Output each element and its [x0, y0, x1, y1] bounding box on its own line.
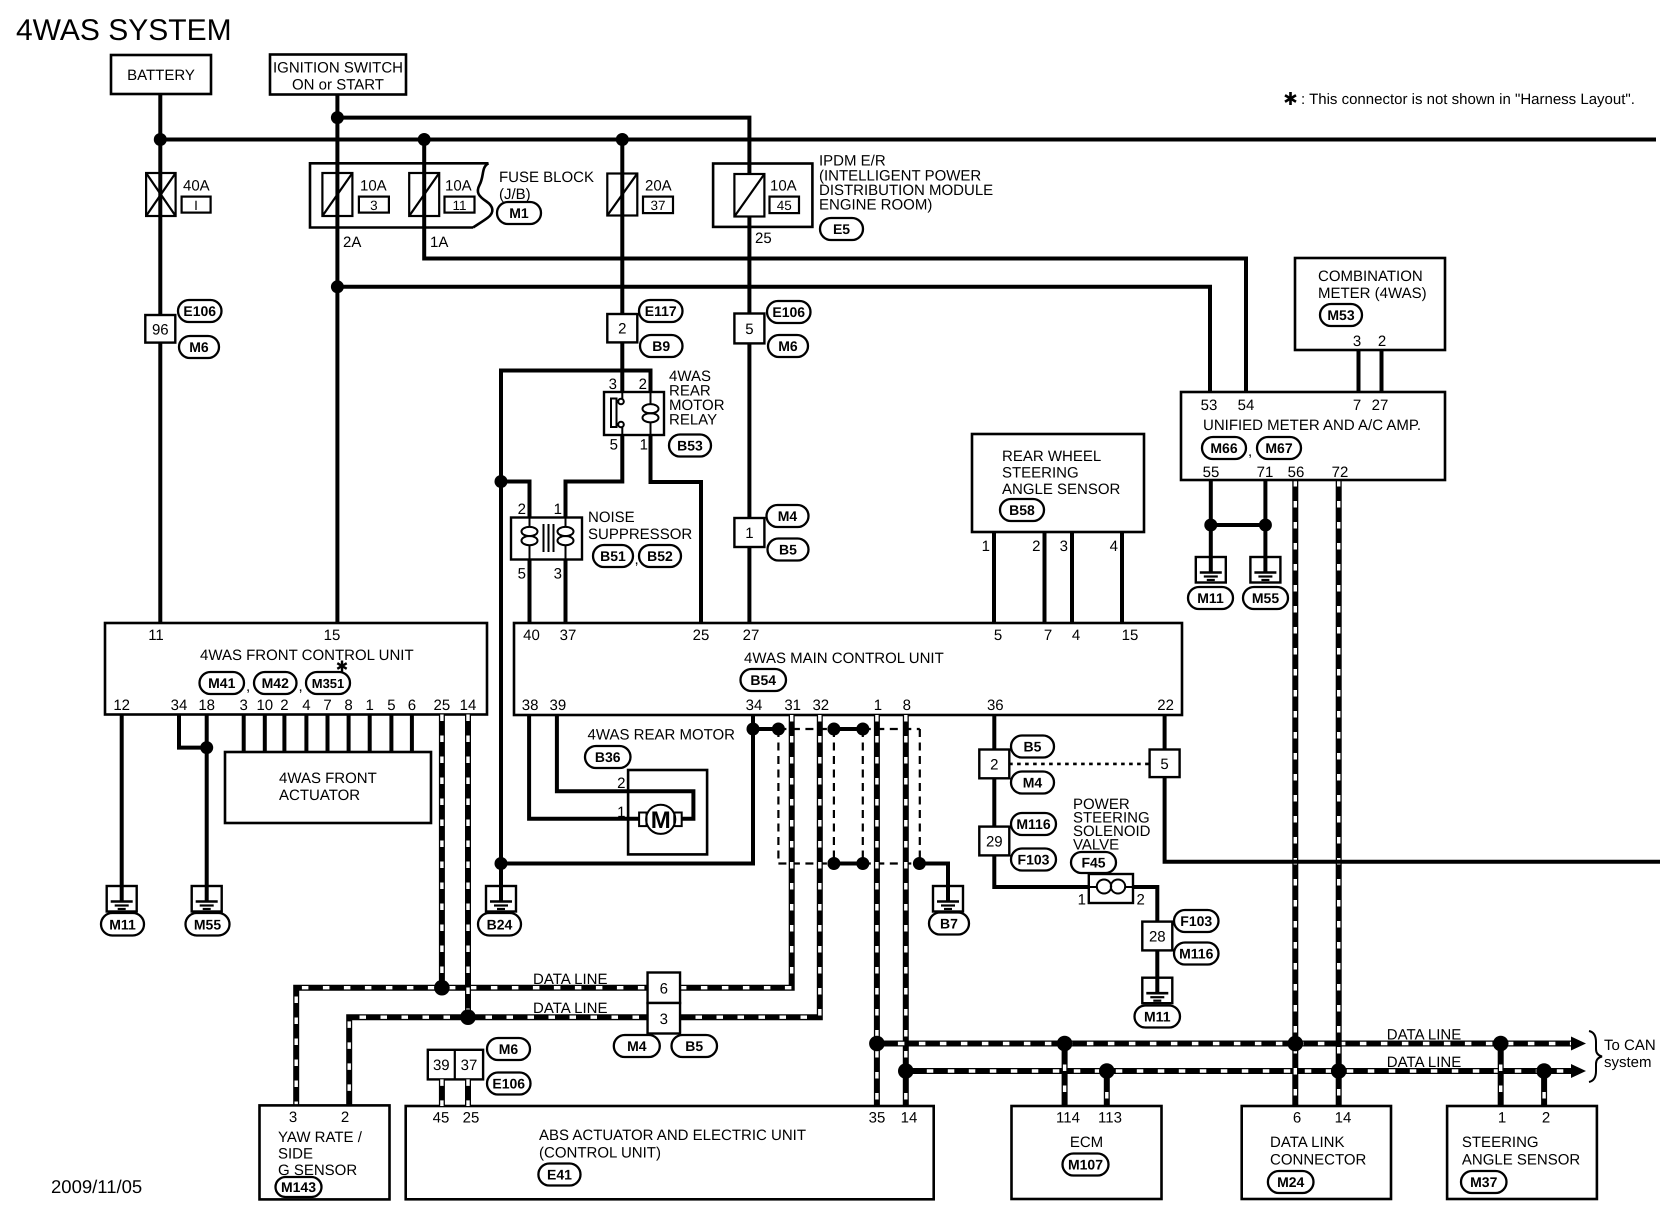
svg-text:3: 3: [609, 376, 617, 393]
svg-text:4WAS REAR MOTOR: 4WAS REAR MOTOR: [588, 727, 736, 744]
dotted link connector2 to connector5: [1009, 763, 1149, 766]
svg-text:M11: M11: [109, 916, 136, 932]
connector B54: [741, 669, 787, 691]
svg-text:B51: B51: [600, 548, 626, 564]
relay B53 box: [604, 392, 664, 435]
svg-text:12: 12: [113, 697, 130, 714]
svg-text:2: 2: [990, 756, 998, 773]
fusible link I 40A: [146, 173, 176, 216]
power steering solenoid valve box: [1089, 874, 1133, 903]
connector M6: [768, 335, 808, 357]
svg-text:37: 37: [650, 198, 665, 213]
svg-text:5: 5: [1160, 756, 1168, 773]
svg-text:6: 6: [408, 697, 416, 714]
svg-text:32: 32: [812, 697, 829, 714]
connector M41: [200, 672, 245, 694]
junction ECM114 / CAN high: [1057, 1036, 1073, 1052]
striped wire main pin31 data line to yaw pin3: [296, 715, 792, 1105]
svg-text:B53: B53: [677, 438, 703, 454]
dashed shield link D right: [863, 728, 920, 730]
wire front pin18 to ground M55: [205, 715, 209, 902]
svg-text:M116: M116: [1016, 816, 1050, 832]
svg-text:5: 5: [387, 697, 395, 714]
value box 37: [643, 197, 673, 214]
connector 2 (B5/M4): [979, 750, 1009, 779]
wire ignition feed vertical: [335, 94, 339, 623]
svg-text:3: 3: [660, 1011, 668, 1028]
svg-text:1A: 1A: [430, 234, 448, 251]
unified top pin labels: [1201, 397, 1389, 414]
connector B51: [593, 545, 633, 567]
wire front unit to actuator: [242, 715, 246, 753]
SAS pin labels: [1498, 1110, 1550, 1127]
svg-text:4: 4: [302, 697, 310, 714]
junction front pin25 / data line: [434, 980, 450, 996]
svg-text:M4: M4: [627, 1038, 647, 1054]
svg-text:F103: F103: [1018, 852, 1050, 868]
text REAR WHEEL STEERING ANGLE SENSOR: [1002, 448, 1121, 498]
ground connector B24: [478, 913, 521, 936]
svg-text:37: 37: [461, 1057, 478, 1074]
svg-text:B7: B7: [940, 916, 958, 932]
svg-text:1: 1: [982, 538, 990, 555]
svg-text:45: 45: [777, 198, 792, 213]
comb pin labels: [1353, 333, 1386, 350]
ignition switch: [270, 55, 406, 95]
svg-text:B5: B5: [1024, 739, 1042, 755]
svg-text:15: 15: [1122, 627, 1139, 644]
connector B5: [768, 539, 809, 561]
svg-text:2: 2: [639, 376, 647, 393]
wire main pin39 to motor pin2: [557, 715, 694, 819]
connector M42: [254, 672, 297, 694]
connector E5: [820, 218, 863, 240]
connector B52: [639, 545, 681, 567]
svg-text:DATA LINE: DATA LINE: [533, 1000, 607, 1017]
svg-text:ON or START: ON or START: [292, 77, 384, 94]
wire front unit to actuator: [282, 715, 286, 753]
svg-text:M42: M42: [262, 675, 289, 691]
front unit bottom pin labels: [113, 697, 476, 714]
junction ground 55: [1204, 519, 1217, 532]
svg-text:F103: F103: [1180, 913, 1212, 929]
svg-text:40A: 40A: [183, 178, 210, 195]
svg-text:6: 6: [660, 980, 668, 997]
svg-text:25: 25: [463, 1110, 480, 1127]
dashed shield link C down: [833, 729, 835, 864]
text COMBINATION METER (4WAS): [1318, 268, 1427, 302]
svg-text:M6: M6: [189, 339, 209, 355]
striped wire to SAS pin1: [1498, 1044, 1504, 1107]
connector M4: [767, 505, 809, 527]
connector B5: [1011, 736, 1054, 758]
connector 96 (E106/M6): [145, 315, 175, 343]
svg-text:E106: E106: [183, 303, 216, 319]
svg-text:F45: F45: [1081, 855, 1105, 871]
dashed shield link B-C: [778, 728, 834, 730]
svg-text:DATA LINK: DATA LINK: [1270, 1134, 1344, 1151]
4WAS front actuator box: [225, 752, 431, 823]
jumper grounds: [1211, 523, 1266, 527]
jumper pin34 to pin31 shield: [753, 727, 778, 731]
ground M11: [1142, 978, 1172, 1004]
wire sensor pin4 to main pin15: [1120, 532, 1124, 623]
svg-text:39: 39: [433, 1057, 450, 1074]
striped wire unified pin72 to DLC pin14: [1336, 480, 1342, 1106]
svg-text:53: 53: [1201, 397, 1218, 414]
svg-text:B9: B9: [652, 338, 670, 354]
wire main pin22 chain: [1165, 715, 1660, 862]
fuse block J/B outline with brace: [310, 163, 492, 227]
svg-text:E106: E106: [492, 1076, 525, 1092]
svg-text:35: 35: [869, 1110, 886, 1127]
svg-text:3: 3: [554, 566, 562, 583]
junction pin34 shield: [747, 723, 760, 736]
svg-text:2: 2: [518, 501, 526, 518]
svg-text:DATA LINE: DATA LINE: [1387, 1027, 1461, 1044]
connector M107: [1063, 1154, 1109, 1176]
striped wire to SAS pin2: [1541, 1071, 1547, 1106]
wire fuse11 output to unified meter pin 54: [424, 140, 1246, 393]
svg-text:3: 3: [240, 697, 248, 714]
svg-text:,: ,: [635, 551, 639, 568]
wire front pin12 to ground M11: [120, 715, 124, 902]
wire sensor pin2 to main pin7: [1043, 532, 1047, 623]
svg-text:2A: 2A: [343, 234, 361, 251]
junction shield F: [856, 857, 869, 870]
svg-text:3: 3: [1353, 333, 1361, 350]
junction DLC14 / CAN low: [1331, 1063, 1347, 1079]
svg-text:25: 25: [755, 230, 772, 247]
connector M67: [1257, 437, 1301, 459]
wire main pin38 to motor pin1: [529, 715, 639, 819]
svg-text:40: 40: [523, 627, 540, 644]
brace To CAN: [1589, 1031, 1602, 1082]
connector M66: [1202, 437, 1246, 459]
connector E41: [538, 1164, 580, 1186]
svg-text:54: 54: [1238, 397, 1255, 414]
svg-text:M11: M11: [1144, 1009, 1171, 1025]
svg-text:31: 31: [784, 697, 801, 714]
svg-text:2: 2: [617, 775, 625, 792]
arrow CAN bus high: [1571, 1037, 1586, 1051]
connector M4: [614, 1035, 660, 1057]
wire fuse37 feed vertical: [620, 140, 624, 393]
svg-text:REAR WHEEL: REAR WHEEL: [1002, 448, 1101, 465]
svg-text:10A: 10A: [770, 178, 797, 195]
text To CAN system: [1604, 1037, 1656, 1071]
ground B24: [486, 886, 516, 912]
data link connector box: [1242, 1106, 1391, 1199]
svg-text:11: 11: [148, 627, 164, 644]
svg-text:96: 96: [152, 321, 169, 338]
main unit top pin labels: [523, 627, 1138, 644]
svg-text:E41: E41: [547, 1167, 572, 1183]
svg-text:28: 28: [1149, 929, 1166, 946]
dashed shield link bottom left: [778, 862, 834, 864]
svg-text:2: 2: [1137, 892, 1145, 909]
combination meter box: [1295, 258, 1445, 350]
connector 1 (M4/B5): [734, 518, 764, 547]
svg-text:M351: M351: [312, 676, 345, 691]
svg-text:ANGLE SENSOR: ANGLE SENSOR: [1002, 481, 1121, 498]
wire relay pin1 to main unit pin25: [651, 435, 702, 623]
noise suppressor pin labels: [518, 501, 562, 583]
svg-text:M6: M6: [499, 1041, 519, 1057]
svg-text:10: 10: [256, 697, 273, 714]
svg-text:B24: B24: [487, 916, 513, 932]
svg-text:M55: M55: [194, 916, 221, 932]
ground B7: [933, 886, 963, 912]
connector F103: [1011, 849, 1056, 871]
svg-text:,: ,: [1248, 443, 1252, 460]
junction shield G: [913, 857, 926, 870]
svg-text:71: 71: [1257, 464, 1274, 481]
svg-text:36: 36: [987, 697, 1004, 714]
wire fuse3 branch to unified meter pin 53: [337, 287, 1210, 392]
ground M55: [192, 886, 222, 912]
svg-text:4: 4: [1110, 538, 1118, 555]
junction pins 34-18: [200, 741, 213, 754]
svg-text:38: 38: [522, 697, 539, 714]
ground M11: [1196, 557, 1226, 583]
svg-text:113: 113: [1098, 1110, 1122, 1127]
ground connector M11: [1135, 1006, 1181, 1028]
wire relay pin5 to noise suppressor pin1: [566, 435, 623, 518]
wire front unit to actuator: [347, 715, 351, 753]
wire shield to B7 ground: [919, 864, 948, 902]
solenoid pin labels: [1078, 892, 1145, 909]
svg-text:,: ,: [299, 678, 303, 695]
svg-text:B5: B5: [685, 1038, 703, 1054]
svg-text:YAW RATE /: YAW RATE /: [278, 1129, 363, 1146]
connector 5 (E106/M6): [734, 314, 764, 344]
junction front pin14 / data line: [460, 1009, 476, 1025]
junction shield D: [856, 723, 869, 736]
fuse 37 20A: [607, 174, 637, 216]
svg-text:39: 39: [550, 697, 567, 714]
svg-text:E117: E117: [645, 303, 677, 319]
connector 28 (F103/M116): [1142, 922, 1172, 951]
svg-text:CONNECTOR: CONNECTOR: [1270, 1152, 1367, 1169]
striped stub 39 to ABS 45: [439, 1079, 445, 1106]
junction fuse 3 output: [331, 280, 344, 293]
4WAS front control unit box: [105, 623, 487, 715]
junction shield E: [827, 857, 840, 870]
svg-text:M4: M4: [778, 508, 798, 524]
connector M4: [1011, 772, 1054, 794]
wire solenoid pin2 to connector 28: [1133, 887, 1157, 993]
junction pin1 / CAN high: [869, 1036, 885, 1052]
jumper shield dots E-F: [834, 862, 863, 866]
asterisk: [337, 661, 346, 672]
junction SAS2 / CAN low: [1536, 1063, 1552, 1079]
svg-text:M6: M6: [778, 338, 798, 354]
connector M6: [179, 336, 219, 358]
svg-text:FUSE BLOCK: FUSE BLOCK: [499, 169, 594, 186]
striped wire unified pin56 to DLC pin6: [1292, 480, 1298, 1106]
svg-text:(CONTROL UNIT): (CONTROL UNIT): [539, 1145, 661, 1162]
svg-text:1: 1: [745, 525, 753, 542]
junction fuse 37 feed: [616, 133, 629, 146]
svg-text:IGNITION SWITCH: IGNITION SWITCH: [273, 60, 403, 77]
striped wire front pin14 to data line: [465, 715, 471, 1018]
unified meter box: [1181, 392, 1445, 480]
wire front unit to actuator: [368, 715, 372, 753]
dashed shield link right down: [919, 729, 921, 864]
svg-text:2: 2: [1542, 1110, 1550, 1127]
connector 39/37 (M6/E106): [428, 1050, 483, 1080]
svg-text:2: 2: [1378, 333, 1386, 350]
front unit top pin labels: [148, 627, 340, 644]
svg-text:UNIFIED METER AND A/C AMP.: UNIFIED METER AND A/C AMP.: [1203, 417, 1421, 434]
svg-text:1: 1: [617, 804, 625, 821]
unified bottom pin labels: [1203, 464, 1349, 481]
text 4WAS FRONT ACTUATOR: [279, 770, 377, 804]
value box 3: [359, 197, 389, 213]
svg-text:1: 1: [874, 697, 882, 714]
wire noise suppressor pin3 to main pin37: [564, 560, 568, 624]
wire main pin36 chain: [994, 715, 1089, 887]
connector E106: [767, 301, 811, 323]
motor pin labels: [617, 775, 625, 821]
svg-text:29: 29: [986, 834, 1003, 851]
relay pin labels: [609, 376, 648, 454]
wire front unit to actuator: [263, 715, 267, 753]
ground M11: [107, 886, 137, 912]
wire front unit to actuator: [389, 715, 393, 753]
svg-text:8: 8: [344, 697, 352, 714]
connector E117: [639, 300, 683, 322]
svg-text:2: 2: [280, 697, 288, 714]
junction battery bus: [154, 133, 167, 146]
svg-text:ANGLE SENSOR: ANGLE SENSOR: [1462, 1152, 1581, 1169]
svg-text:4WAS FRONT CONTROL UNIT: 4WAS FRONT CONTROL UNIT: [200, 647, 414, 664]
svg-text:SUPPRESSOR: SUPPRESSOR: [588, 526, 692, 543]
wire sensor pin3 to main pin4: [1070, 532, 1074, 623]
svg-text:M107: M107: [1068, 1157, 1103, 1173]
svg-text:22: 22: [1157, 697, 1174, 714]
value box 11: [445, 197, 475, 213]
svg-text:56: 56: [1288, 464, 1305, 481]
svg-text:27: 27: [1372, 397, 1389, 414]
svg-text:14: 14: [460, 697, 477, 714]
striped wire main pin32 data line to yaw pin2: [349, 715, 820, 1105]
svg-text:STEERING: STEERING: [1002, 465, 1079, 482]
junction shield B: [772, 723, 785, 736]
text 4WAS REAR MOTOR RELAY: [669, 368, 725, 429]
connector 5 (B5/M4): [1150, 750, 1180, 778]
dashed shield link bottom right: [863, 862, 920, 864]
svg-text:5: 5: [994, 627, 1002, 644]
noise suppressor coils: [522, 518, 574, 560]
svg-text:4WAS MAIN CONTROL UNIT: 4WAS MAIN CONTROL UNIT: [744, 650, 944, 667]
svg-text:M11: M11: [1197, 590, 1224, 606]
dashed shield link D down: [862, 729, 864, 864]
relay coil: [643, 392, 659, 435]
connector 2 (E117/B9): [607, 314, 637, 342]
svg-text:4WAS SYSTEM: 4WAS SYSTEM: [16, 14, 232, 47]
sensor pin labels: [982, 538, 1118, 555]
wire ignition bus to IPDM: [337, 118, 749, 623]
text IPDM E/R: [819, 153, 993, 214]
svg-text:34: 34: [171, 697, 188, 714]
wire ABS pin25 stub: [465, 1079, 471, 1106]
svg-text:20A: 20A: [645, 178, 672, 195]
svg-text:1: 1: [554, 501, 562, 518]
svg-text:7: 7: [1353, 397, 1361, 414]
svg-text:55: 55: [1203, 464, 1220, 481]
connector E106: [178, 300, 222, 322]
svg-text:B52: B52: [647, 548, 673, 564]
svg-text:ECM: ECM: [1070, 1134, 1103, 1151]
svg-text:ENGINE ROOM): ENGINE ROOM): [819, 197, 932, 214]
junction ECM113 / CAN low: [1099, 1063, 1115, 1079]
svg-text:BATTERY: BATTERY: [127, 67, 195, 84]
svg-text:5: 5: [518, 566, 526, 583]
motor M symbol: [639, 805, 682, 834]
wire battery bus y=139.5: [160, 138, 1656, 142]
wire main pin34 to B24 ground line: [501, 715, 753, 864]
svg-text:NOISE: NOISE: [588, 509, 635, 526]
wire front unit to actuator: [410, 715, 414, 753]
wire battery feed vertical: [158, 94, 162, 623]
main unit bottom pin labels: [522, 697, 1174, 714]
svg-text:M55: M55: [1252, 590, 1279, 606]
junction SAS1 / CAN high: [1493, 1036, 1509, 1052]
rear wheel steering angle sensor box: [972, 434, 1144, 532]
connector M351: [306, 672, 350, 694]
svg-text:M53: M53: [1327, 307, 1354, 323]
svg-text:DATA LINE: DATA LINE: [1387, 1054, 1461, 1071]
svg-text:114: 114: [1056, 1110, 1080, 1127]
striped wire main pin8 to ABS pin14: [903, 715, 909, 1106]
dashed shield link B down: [777, 729, 779, 864]
svg-text:1: 1: [1078, 892, 1086, 909]
svg-text:14: 14: [1335, 1110, 1352, 1127]
connector B9: [640, 335, 683, 357]
svg-text:25: 25: [693, 627, 710, 644]
svg-text:RELAY: RELAY: [669, 412, 717, 429]
connector 6 (M4/B5): [648, 973, 681, 1004]
svg-text:14: 14: [901, 1110, 918, 1127]
striped wire to ECM pin113: [1104, 1071, 1110, 1106]
noise suppressor box: [511, 518, 582, 560]
svg-text:72: 72: [1332, 464, 1349, 481]
svg-text:M24: M24: [1277, 1174, 1304, 1190]
striped CAN bus high: [877, 1041, 1573, 1047]
connector M1: [497, 202, 541, 224]
svg-text:M66: M66: [1210, 440, 1237, 456]
svg-text:,: ,: [246, 678, 250, 695]
ground connector M55: [186, 913, 230, 936]
svg-text:M1: M1: [509, 205, 529, 221]
svg-text:3: 3: [289, 1109, 297, 1126]
4WAS rear motor box: [628, 770, 707, 854]
svg-text:2: 2: [1032, 538, 1040, 555]
connector M116: [1174, 943, 1219, 965]
svg-text:7: 7: [1044, 627, 1052, 644]
svg-text:5: 5: [745, 321, 753, 338]
svg-text:8: 8: [903, 697, 911, 714]
wire front unit to actuator: [326, 715, 330, 753]
yaw pin labels: [289, 1109, 349, 1126]
DLC pin labels: [1293, 1110, 1352, 1127]
text STEERING ANGLE SENSOR: [1462, 1134, 1581, 1169]
connector M143: [276, 1177, 322, 1197]
fuse 11 10A: [409, 173, 439, 216]
arrow CAN bus low: [1571, 1064, 1586, 1078]
